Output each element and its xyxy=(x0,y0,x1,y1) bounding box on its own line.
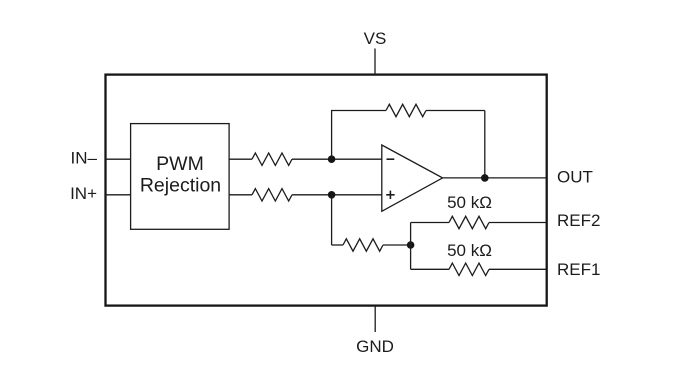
feedback resistor xyxy=(386,104,426,116)
resistor 50 kOhm (REF2) xyxy=(449,216,489,228)
svg-text:PWM: PWM xyxy=(156,153,204,175)
svg-text:REF2: REF2 xyxy=(557,211,600,230)
wire: junction to REF2 resistor xyxy=(411,222,449,224)
resistor (non-inverting input) xyxy=(252,189,292,201)
wire: op-amp output to OUT pin xyxy=(443,177,546,179)
VS pin wire xyxy=(374,49,376,76)
wire: inverting-input resistor to op-amp xyxy=(292,158,382,160)
op-amp minus sign xyxy=(387,158,395,160)
wire: REF1 resistor to REF1 pin xyxy=(489,268,546,270)
wire: feedback top-right horizontal xyxy=(426,110,485,112)
svg-text:50 kΩ: 50 kΩ xyxy=(447,193,492,212)
svg-text:50 kΩ: 50 kΩ xyxy=(447,241,492,260)
wire: to gain resistor xyxy=(332,244,343,246)
wire: PWM block to non-inverting-input resistor xyxy=(229,194,252,196)
wire: junction to REF1 resistor xyxy=(411,268,449,270)
junction dot: output node xyxy=(481,174,489,182)
IN+ pin wire xyxy=(106,194,131,196)
GND pin wire xyxy=(374,306,376,333)
junction dot: non-inverting input node xyxy=(328,191,336,199)
op-amp triangle xyxy=(382,145,443,211)
wire: feedback right vertical to output xyxy=(484,111,486,178)
wire: non-inverting node down to gain resistor xyxy=(331,195,333,245)
wire: feedback top-left horizontal xyxy=(331,110,386,112)
svg-text:OUT: OUT xyxy=(557,168,593,187)
gain resistor xyxy=(343,239,383,251)
wire: PWM block to inverting-input resistor xyxy=(229,158,252,160)
svg-text:VS: VS xyxy=(364,29,387,48)
svg-text:REF1: REF1 xyxy=(557,260,600,279)
wire: gain resistor to reference junction xyxy=(383,244,411,246)
wire: feedback left vertical xyxy=(331,111,333,160)
junction dot: inverting input node xyxy=(328,155,336,163)
wire: REF2 resistor to REF2 pin xyxy=(489,222,546,224)
op-amp plus sign xyxy=(386,194,394,196)
wire: non-inverting-input resistor to op-amp xyxy=(292,194,382,196)
PWM Rejection block xyxy=(131,124,230,230)
wire: reference junction vertical xyxy=(410,223,412,270)
IN- pin wire xyxy=(106,158,131,160)
svg-text:IN–: IN– xyxy=(71,148,98,167)
resistor (inverting input) xyxy=(252,153,292,165)
IC boundary box xyxy=(106,75,547,306)
svg-text:GND: GND xyxy=(356,337,394,356)
junction dot: reference divider node xyxy=(407,241,415,249)
svg-text:Rejection: Rejection xyxy=(140,175,221,197)
svg-text:IN+: IN+ xyxy=(70,184,97,203)
resistor 50 kOhm (REF1) xyxy=(449,263,489,275)
